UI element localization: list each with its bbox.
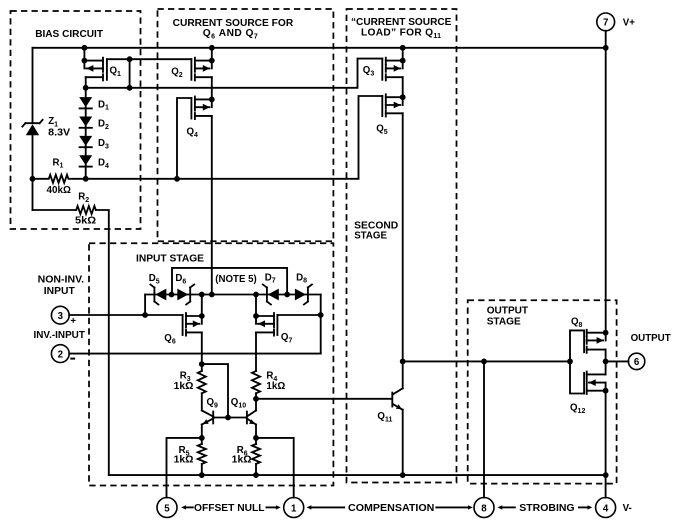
wire pin3 to Q6 gate	[69, 314, 182, 316]
wire Q7 drain drop to R4	[255, 332, 257, 371]
wire R1 node row D4 to Q5 gate	[86, 96, 383, 179]
svg-text:V+: V+	[623, 18, 635, 29]
resistor R2	[76, 206, 96, 214]
pin 6 OUTPUT	[628, 353, 644, 369]
wire Q3 drain to Q5 source	[402, 77, 404, 97]
svg-text:1kΩ: 1kΩ	[232, 454, 252, 465]
transistor Q9	[202, 411, 213, 425]
wire Q7 gate stub	[277, 314, 320, 316]
output stage dashed box	[468, 300, 617, 483]
pin 5 offset null	[157, 498, 177, 518]
junction dots transistor sources top row	[82, 58, 88, 64]
resistor R3	[198, 371, 206, 393]
wire input tail loop	[172, 268, 287, 295]
pin 8 compensation	[474, 498, 494, 518]
svg-text:+: +	[70, 316, 76, 327]
svg-text:5kΩ: 5kΩ	[75, 216, 96, 227]
wire R3 bottom to Q9 collector	[201, 393, 203, 410]
input stage dashed box	[89, 243, 333, 485]
transistor Q1	[84, 48, 107, 81]
junction dots V- rail	[199, 472, 205, 478]
junction dots output pair	[603, 330, 609, 336]
transistor Q2	[191, 48, 211, 81]
wire R4 bottom to Q10 collector	[255, 393, 257, 410]
junction dot R4 node	[253, 396, 259, 402]
transistor Q4	[191, 97, 211, 120]
wire V- rail	[109, 474, 606, 476]
svg-text:2: 2	[58, 349, 63, 360]
wire V+ rail	[33, 47, 606, 49]
wire output node to pin6	[606, 360, 629, 362]
wire Q11 emitter drop	[402, 410, 404, 476]
wire Q5 drain drop second stage	[402, 113, 404, 388]
transistor Q8	[570, 330, 606, 362]
pin 3 non-inverting input	[51, 306, 69, 324]
wire R4 node to Q11 base	[256, 398, 391, 400]
junction dots cascode sources	[209, 97, 215, 103]
svg-text:INV.-INPUT: INV.-INPUT	[34, 330, 85, 341]
transistor Q10	[247, 411, 256, 425]
svg-text:8: 8	[481, 503, 487, 514]
wire pin8 drop	[483, 361, 485, 497]
wire Q1 gate to Q2 gate	[107, 58, 191, 60]
junction dots input pair sources	[199, 313, 205, 319]
resistor R4	[252, 371, 260, 393]
wire R6 branch to pin1	[256, 438, 294, 498]
current source for Q6 and Q7 dashed box	[158, 9, 334, 241]
svg-text:8.3V: 8.3V	[48, 128, 71, 139]
svg-text:Q6 AND Q7: Q6 AND Q7	[203, 28, 258, 40]
transistor Q5	[382, 94, 402, 116]
pin 2 inverting input	[51, 345, 69, 363]
transistor Q7	[256, 295, 277, 336]
wire D8 corner leg	[320, 295, 322, 354]
wire R6 bottom lead	[255, 464, 257, 475]
wire D5 corner leg	[144, 295, 146, 316]
wire Q9 emitter drop	[201, 425, 203, 445]
bias circuit dashed box	[11, 11, 141, 229]
current source load for Q11 / second stage dashed box	[347, 9, 457, 483]
svg-text:4: 4	[603, 503, 609, 514]
svg-text:OUTPUT: OUTPUT	[631, 333, 671, 344]
wire bias left vertical lower	[32, 135, 34, 211]
svg-text:1kΩ: 1kΩ	[174, 381, 194, 392]
diode D2	[79, 117, 92, 128]
resistor R6	[252, 444, 260, 464]
svg-text:6: 6	[634, 357, 640, 368]
svg-text:“CURRENT SOURCE: “CURRENT SOURCE	[351, 17, 452, 28]
svg-text:1kΩ: 1kΩ	[174, 454, 194, 465]
diode D4	[79, 155, 92, 166]
diode D3	[79, 136, 92, 147]
transistor Q12	[570, 361, 606, 394]
transistor Q6	[183, 295, 202, 336]
wire Q4 drain drop to input stage	[211, 116, 213, 295]
diode D5	[150, 285, 166, 305]
junction dots R5 R6 tops	[199, 435, 205, 441]
svg-text:(NOTE 5): (NOTE 5)	[215, 274, 256, 285]
junction dots input gates	[142, 312, 148, 318]
wire Q12 source to V- rail and pin4	[605, 391, 607, 498]
svg-text:3: 3	[58, 311, 64, 322]
wire R5 branch to pin5	[167, 438, 202, 498]
label STROBING with arrows	[498, 505, 503, 509]
resistor R1	[33, 175, 86, 183]
wire right V+ drop to Q8	[605, 48, 607, 341]
junction dots R3 node and bases	[199, 361, 205, 367]
transistor Q11	[392, 388, 402, 410]
resistor R5	[198, 444, 206, 464]
wire bias left vertical upper	[32, 48, 34, 123]
svg-text:1kΩ: 1kΩ	[266, 381, 285, 392]
diode D8	[295, 285, 312, 305]
junction dots output drive	[400, 359, 406, 365]
svg-text:INPUT STAGE: INPUT STAGE	[136, 253, 204, 264]
pin 7 V+	[597, 13, 615, 31]
svg-text:LOAD” FOR Q11: LOAD” FOR Q11	[361, 27, 441, 39]
wire Q10 emitter drop	[255, 425, 257, 445]
svg-text:NON-INV.: NON-INV.	[38, 275, 85, 286]
label COMPENSATION with arrows	[307, 505, 312, 509]
diode D7	[263, 285, 279, 305]
svg-text:OFFSET NULL: OFFSET NULL	[194, 503, 265, 514]
pin 4 V-	[596, 498, 616, 518]
wire input diode row	[145, 294, 321, 296]
svg-text:V-: V-	[623, 503, 632, 514]
svg-text:STAGE: STAGE	[354, 231, 387, 242]
wire Q2 drain to Q4 source	[211, 77, 213, 99]
wire pin7 stub	[605, 31, 607, 48]
wire R5 bottom lead	[201, 464, 203, 475]
diode D6	[177, 285, 194, 305]
wire R3 top to Q9 Q10 bases	[202, 364, 228, 417]
wire diode string vertical	[85, 88, 87, 179]
wire Q6 drain drop to R3	[201, 332, 203, 371]
svg-text:40kΩ: 40kΩ	[47, 185, 72, 196]
svg-text:COMPENSATION: COMPENSATION	[348, 503, 434, 514]
svg-text:STROBING: STROBING	[519, 503, 575, 514]
wire Q1 drain to Q3 gate	[86, 59, 383, 88]
zener Z1	[22, 120, 42, 135]
diode D1	[79, 97, 92, 108]
svg-text:STAGE: STAGE	[487, 316, 521, 327]
junction dots bias row	[30, 176, 36, 182]
transistor Q3	[382, 48, 402, 81]
wire Q1 gate-drain tie	[129, 59, 131, 88]
svg-text:1: 1	[291, 503, 297, 514]
label OFFSET NULL with arrows	[181, 505, 186, 509]
wire second stage to output gates	[403, 360, 570, 362]
wire R2 right lead and drop to V- rail	[96, 210, 109, 475]
wire Q4 gate leg	[177, 98, 191, 179]
junction dots Q1 gate drain tie	[127, 56, 133, 62]
pin 1 offset null	[284, 498, 304, 518]
wire R2 left lead	[33, 209, 77, 211]
svg-text:BIAS CIRCUIT: BIAS CIRCUIT	[35, 29, 104, 40]
svg-text:7: 7	[603, 18, 608, 29]
svg-text:OUTPUT: OUTPUT	[487, 306, 529, 317]
junction dots input diode row	[169, 292, 175, 298]
wire pin2 to input	[69, 353, 321, 355]
wire Q9 Q10 base bar join	[213, 417, 247, 419]
junction dots V+ rail	[82, 45, 88, 51]
svg-text:5: 5	[164, 503, 170, 514]
svg-text:INPUT: INPUT	[44, 286, 75, 297]
